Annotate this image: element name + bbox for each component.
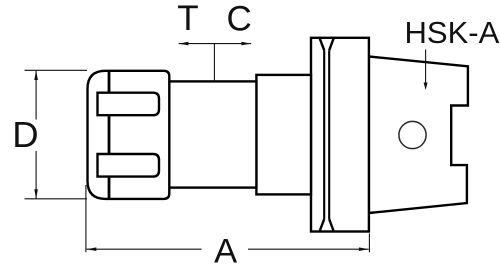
coolant hole circle bbox=[399, 121, 426, 148]
svg-text:A: A bbox=[214, 233, 237, 271]
D extension line top bbox=[25, 69, 88, 71]
arrowhead A left bbox=[87, 247, 97, 251]
A extension line right bbox=[368, 234, 370, 253]
HSK taper shank body bbox=[369, 57, 468, 214]
A dimension line right segment bbox=[248, 248, 369, 250]
groove V bottom-left slope bbox=[320, 219, 325, 231]
arrowhead D up bbox=[34, 70, 38, 80]
collet nut outline bbox=[88, 71, 170, 199]
svg-text:T: T bbox=[177, 0, 198, 38]
svg-text:D: D bbox=[12, 114, 38, 155]
arrowhead A right bbox=[359, 247, 369, 251]
groove V bottom-right slope bbox=[329, 219, 334, 231]
spacer collar bbox=[256, 75, 311, 194]
arrowhead T left bbox=[179, 42, 189, 46]
groove V top-left slope bbox=[320, 38, 325, 51]
cylinder body bbox=[169, 81, 256, 187]
arrowhead D down bbox=[34, 189, 38, 199]
T-C divider tick bbox=[213, 44, 215, 82]
D extension line bottom bbox=[25, 198, 88, 200]
nut wrench slot bottom bbox=[98, 154, 160, 177]
T-C dimension line bbox=[179, 43, 251, 45]
HSK-A pointer line bbox=[425, 50, 427, 85]
collet nut cone edge line bbox=[108, 71, 111, 199]
arrowhead C right bbox=[241, 42, 251, 46]
arrowhead HSK-A down bbox=[424, 83, 428, 91]
svg-text:HSK-A: HSK-A bbox=[405, 15, 500, 50]
flange with V-groove bbox=[311, 38, 369, 232]
D dimension line lower segment bbox=[35, 151, 37, 199]
A dimension line left segment bbox=[87, 248, 202, 250]
groove bottom silhouette line right bbox=[328, 50, 330, 219]
nut wrench slot top bbox=[98, 93, 160, 116]
D dimension line upper segment bbox=[35, 71, 37, 120]
groove bottom silhouette line left bbox=[323, 50, 325, 219]
groove V top-right slope bbox=[329, 38, 334, 51]
A extension line left bbox=[85, 185, 87, 252]
svg-text:C: C bbox=[227, 0, 252, 38]
